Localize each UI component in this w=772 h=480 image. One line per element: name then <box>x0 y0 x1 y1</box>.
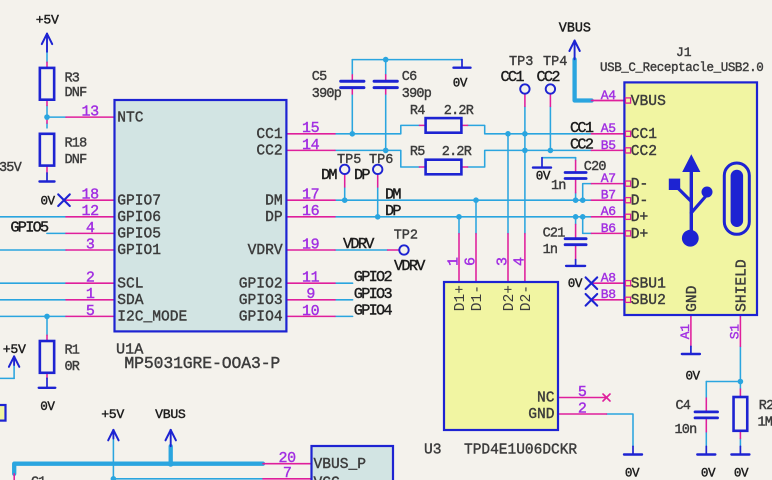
svg-text:0V: 0V <box>41 194 56 208</box>
svg-text:10n: 10n <box>675 423 697 438</box>
svg-text:VBUS: VBUS <box>155 407 186 422</box>
svg-text:C4: C4 <box>676 399 691 414</box>
svg-text:GPIO3: GPIO3 <box>354 285 393 303</box>
svg-text:C20: C20 <box>584 160 607 175</box>
svg-text:SBU2: SBU2 <box>631 293 666 309</box>
svg-text:VCC: VCC <box>314 476 341 480</box>
svg-text:VBUS_P: VBUS_P <box>314 457 367 473</box>
svg-text:C5: C5 <box>312 70 327 85</box>
svg-text:CC2: CC2 <box>537 68 561 86</box>
svg-text:15: 15 <box>302 120 320 137</box>
svg-text:TP2: TP2 <box>394 229 418 244</box>
svg-text:GPIO6: GPIO6 <box>117 210 161 226</box>
svg-text:R5: R5 <box>410 145 425 160</box>
svg-text:16: 16 <box>302 203 320 220</box>
svg-text:D1-: D1- <box>470 285 486 311</box>
svg-text:1: 1 <box>445 257 462 266</box>
svg-text:C21: C21 <box>543 227 566 242</box>
svg-text:1M: 1M <box>758 416 772 431</box>
svg-text:GPIO2: GPIO2 <box>354 268 393 286</box>
svg-text:2.2R: 2.2R <box>444 104 474 119</box>
svg-text:D-: D- <box>631 194 649 210</box>
svg-text:D1+: D1+ <box>453 285 469 311</box>
svg-text:CC2: CC2 <box>570 136 594 154</box>
svg-text:19: 19 <box>302 236 319 253</box>
svg-text:DNF: DNF <box>65 86 88 101</box>
svg-text:SCL: SCL <box>117 276 143 292</box>
svg-text:SDA: SDA <box>117 293 144 309</box>
svg-text:D2-: D2- <box>519 285 535 311</box>
svg-text:A8: A8 <box>601 271 616 286</box>
svg-text:CC1: CC1 <box>256 127 283 143</box>
svg-text:B8: B8 <box>601 287 616 302</box>
svg-text:GPIO5: GPIO5 <box>10 219 49 237</box>
svg-text:VDRV: VDRV <box>394 257 426 275</box>
svg-text:DP: DP <box>385 202 401 220</box>
svg-text:R3: R3 <box>65 72 80 87</box>
svg-text:TP6: TP6 <box>369 153 393 168</box>
svg-text:GPIO1: GPIO1 <box>117 243 161 259</box>
svg-text:DM: DM <box>321 166 337 184</box>
svg-text:4: 4 <box>86 220 95 237</box>
svg-text:R2: R2 <box>759 399 772 414</box>
svg-text:GPIO4: GPIO4 <box>354 301 393 319</box>
svg-text:CC2: CC2 <box>631 144 657 160</box>
svg-text:0V: 0V <box>734 466 749 480</box>
svg-text:390p: 390p <box>402 87 432 102</box>
svg-text:12: 12 <box>82 203 99 220</box>
svg-text:VDRV: VDRV <box>248 243 283 259</box>
svg-text:11: 11 <box>302 270 320 287</box>
svg-text:18: 18 <box>82 187 100 204</box>
svg-text:U3: U3 <box>424 443 442 459</box>
svg-text:R4: R4 <box>410 104 425 119</box>
svg-text:+5V: +5V <box>36 12 59 27</box>
svg-text:GPIO4: GPIO4 <box>239 310 283 326</box>
svg-text:0V: 0V <box>40 400 55 414</box>
svg-text:0V: 0V <box>568 277 583 291</box>
svg-text:14: 14 <box>302 137 320 154</box>
svg-text:CC1: CC1 <box>631 127 658 143</box>
svg-text:NTC: NTC <box>117 110 144 126</box>
svg-text:C1: C1 <box>31 475 46 480</box>
svg-text:D-: D- <box>631 177 649 193</box>
svg-text:DP: DP <box>265 210 283 226</box>
svg-text:MP5031GRE-OOA3-P: MP5031GRE-OOA3-P <box>124 354 280 373</box>
svg-text:A6: A6 <box>601 204 616 219</box>
svg-text:D+: D+ <box>631 227 649 243</box>
svg-text:13: 13 <box>82 104 100 121</box>
svg-text:2.2R: 2.2R <box>442 145 472 160</box>
svg-text:1n: 1n <box>551 179 566 194</box>
svg-text:VBUS: VBUS <box>559 21 591 36</box>
svg-text:7: 7 <box>283 465 292 480</box>
svg-text:10: 10 <box>302 303 320 320</box>
svg-text:SBU1: SBU1 <box>631 277 666 293</box>
svg-text:0V: 0V <box>701 466 716 480</box>
svg-text:USB_C_Receptacle_USB2.0: USB_C_Receptacle_USB2.0 <box>600 61 763 75</box>
svg-text:D2+: D2+ <box>502 285 518 311</box>
svg-text:R1: R1 <box>65 343 80 358</box>
svg-text:DM: DM <box>385 185 401 203</box>
svg-text:+5V: +5V <box>3 342 26 357</box>
svg-text:9: 9 <box>306 286 315 303</box>
svg-text:B6: B6 <box>601 221 616 236</box>
svg-text:DP: DP <box>354 166 370 184</box>
svg-text:5: 5 <box>578 384 587 401</box>
svg-text:GPIO5: GPIO5 <box>117 227 161 243</box>
svg-text:I2C_MODE: I2C_MODE <box>117 310 187 326</box>
svg-text:B7: B7 <box>601 188 616 203</box>
svg-text:2: 2 <box>86 270 95 287</box>
svg-text:4: 4 <box>511 257 528 266</box>
svg-text:3: 3 <box>494 257 511 266</box>
svg-text:A4: A4 <box>601 88 617 103</box>
svg-text:6: 6 <box>462 257 479 266</box>
svg-text:3: 3 <box>86 236 95 253</box>
svg-text:390p: 390p <box>312 87 342 102</box>
svg-text:VDRV: VDRV <box>343 235 375 253</box>
svg-text:GND: GND <box>528 407 555 423</box>
svg-text:NC: NC <box>537 391 555 407</box>
svg-text:DM: DM <box>265 193 283 209</box>
svg-text:TPD4E1U06DCKR: TPD4E1U06DCKR <box>464 443 577 459</box>
svg-text:0V: 0V <box>625 466 640 480</box>
svg-text:0V: 0V <box>536 170 551 184</box>
svg-text:A5: A5 <box>601 121 616 136</box>
svg-text:CC2: CC2 <box>256 144 282 160</box>
svg-text:2: 2 <box>578 400 587 417</box>
svg-text:+5V: +5V <box>101 407 124 422</box>
svg-text:B5: B5 <box>601 138 616 153</box>
svg-text:GPIO3: GPIO3 <box>239 293 283 309</box>
svg-text:0V: 0V <box>453 77 468 91</box>
svg-text:GPIO2: GPIO2 <box>239 276 283 292</box>
svg-text:R18: R18 <box>65 137 88 152</box>
svg-text:GPIO7: GPIO7 <box>117 193 161 209</box>
svg-text:DNF: DNF <box>65 153 88 168</box>
svg-text:SHIELD: SHIELD <box>735 259 751 312</box>
svg-text:1n: 1n <box>543 243 558 258</box>
svg-text:35V: 35V <box>0 161 23 176</box>
svg-text:CC1: CC1 <box>570 119 594 137</box>
svg-text:A1: A1 <box>678 324 693 340</box>
svg-text:D+: D+ <box>631 210 649 226</box>
svg-text:17: 17 <box>302 187 319 204</box>
svg-text:0V: 0V <box>686 370 701 384</box>
svg-text:S1: S1 <box>727 324 742 340</box>
svg-text:0R: 0R <box>65 360 80 375</box>
svg-text:1: 1 <box>86 286 95 303</box>
svg-text:C6: C6 <box>402 70 417 85</box>
svg-text:VBUS: VBUS <box>631 94 666 110</box>
svg-text:5: 5 <box>86 303 95 320</box>
svg-text:CC1: CC1 <box>501 68 525 86</box>
svg-text:J1: J1 <box>676 45 692 60</box>
svg-text:GND: GND <box>685 285 701 312</box>
